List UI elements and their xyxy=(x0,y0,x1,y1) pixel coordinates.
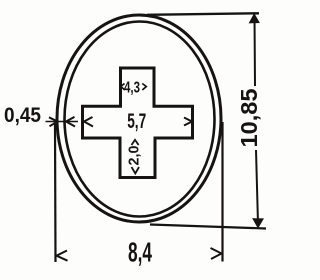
svg-text:2,0: 2,0 xyxy=(126,146,143,166)
svg-text:4,3: 4,3 xyxy=(124,80,140,97)
svg-text:8,4: 8,4 xyxy=(128,237,152,268)
up arrow of 2,0 xyxy=(132,140,139,145)
left extension line for 8,4 xyxy=(54,124,57,262)
top extension line for 10,85 xyxy=(147,13,259,15)
arrow to right edge of slot xyxy=(184,118,192,126)
arrow to outer ellipse (points right) xyxy=(49,117,58,126)
svg-text:5,7: 5,7 xyxy=(127,110,146,133)
arrow to inner ellipse (points left) xyxy=(66,117,75,127)
down arrow of 2,0 xyxy=(132,167,140,174)
arrow right of 4,3 xyxy=(142,84,146,91)
cross recess outline xyxy=(83,68,193,178)
top arrowhead xyxy=(249,14,259,23)
right arrow of 8,4 (points right) xyxy=(211,248,222,259)
svg-text:0,45: 0,45 xyxy=(4,104,41,127)
right extension line for 8,4 xyxy=(221,122,223,262)
outer ellipse (screw head outline) xyxy=(57,15,221,222)
arrow to left edge of slot xyxy=(84,117,93,127)
bottom extension line for 10,85 xyxy=(150,225,266,229)
vertical dimension line 10,85 lower segment xyxy=(256,150,258,224)
bottom arrowhead xyxy=(253,219,263,228)
inner ellipse xyxy=(65,22,215,217)
vertical dimension line 10,85 upper segment xyxy=(254,16,257,86)
svg-text:10,85: 10,85 xyxy=(236,88,262,147)
dim line for 0,45 xyxy=(46,121,79,123)
arrow left of 4,3 xyxy=(121,84,125,91)
left arrow of 8,4 (points left) xyxy=(57,251,68,261)
